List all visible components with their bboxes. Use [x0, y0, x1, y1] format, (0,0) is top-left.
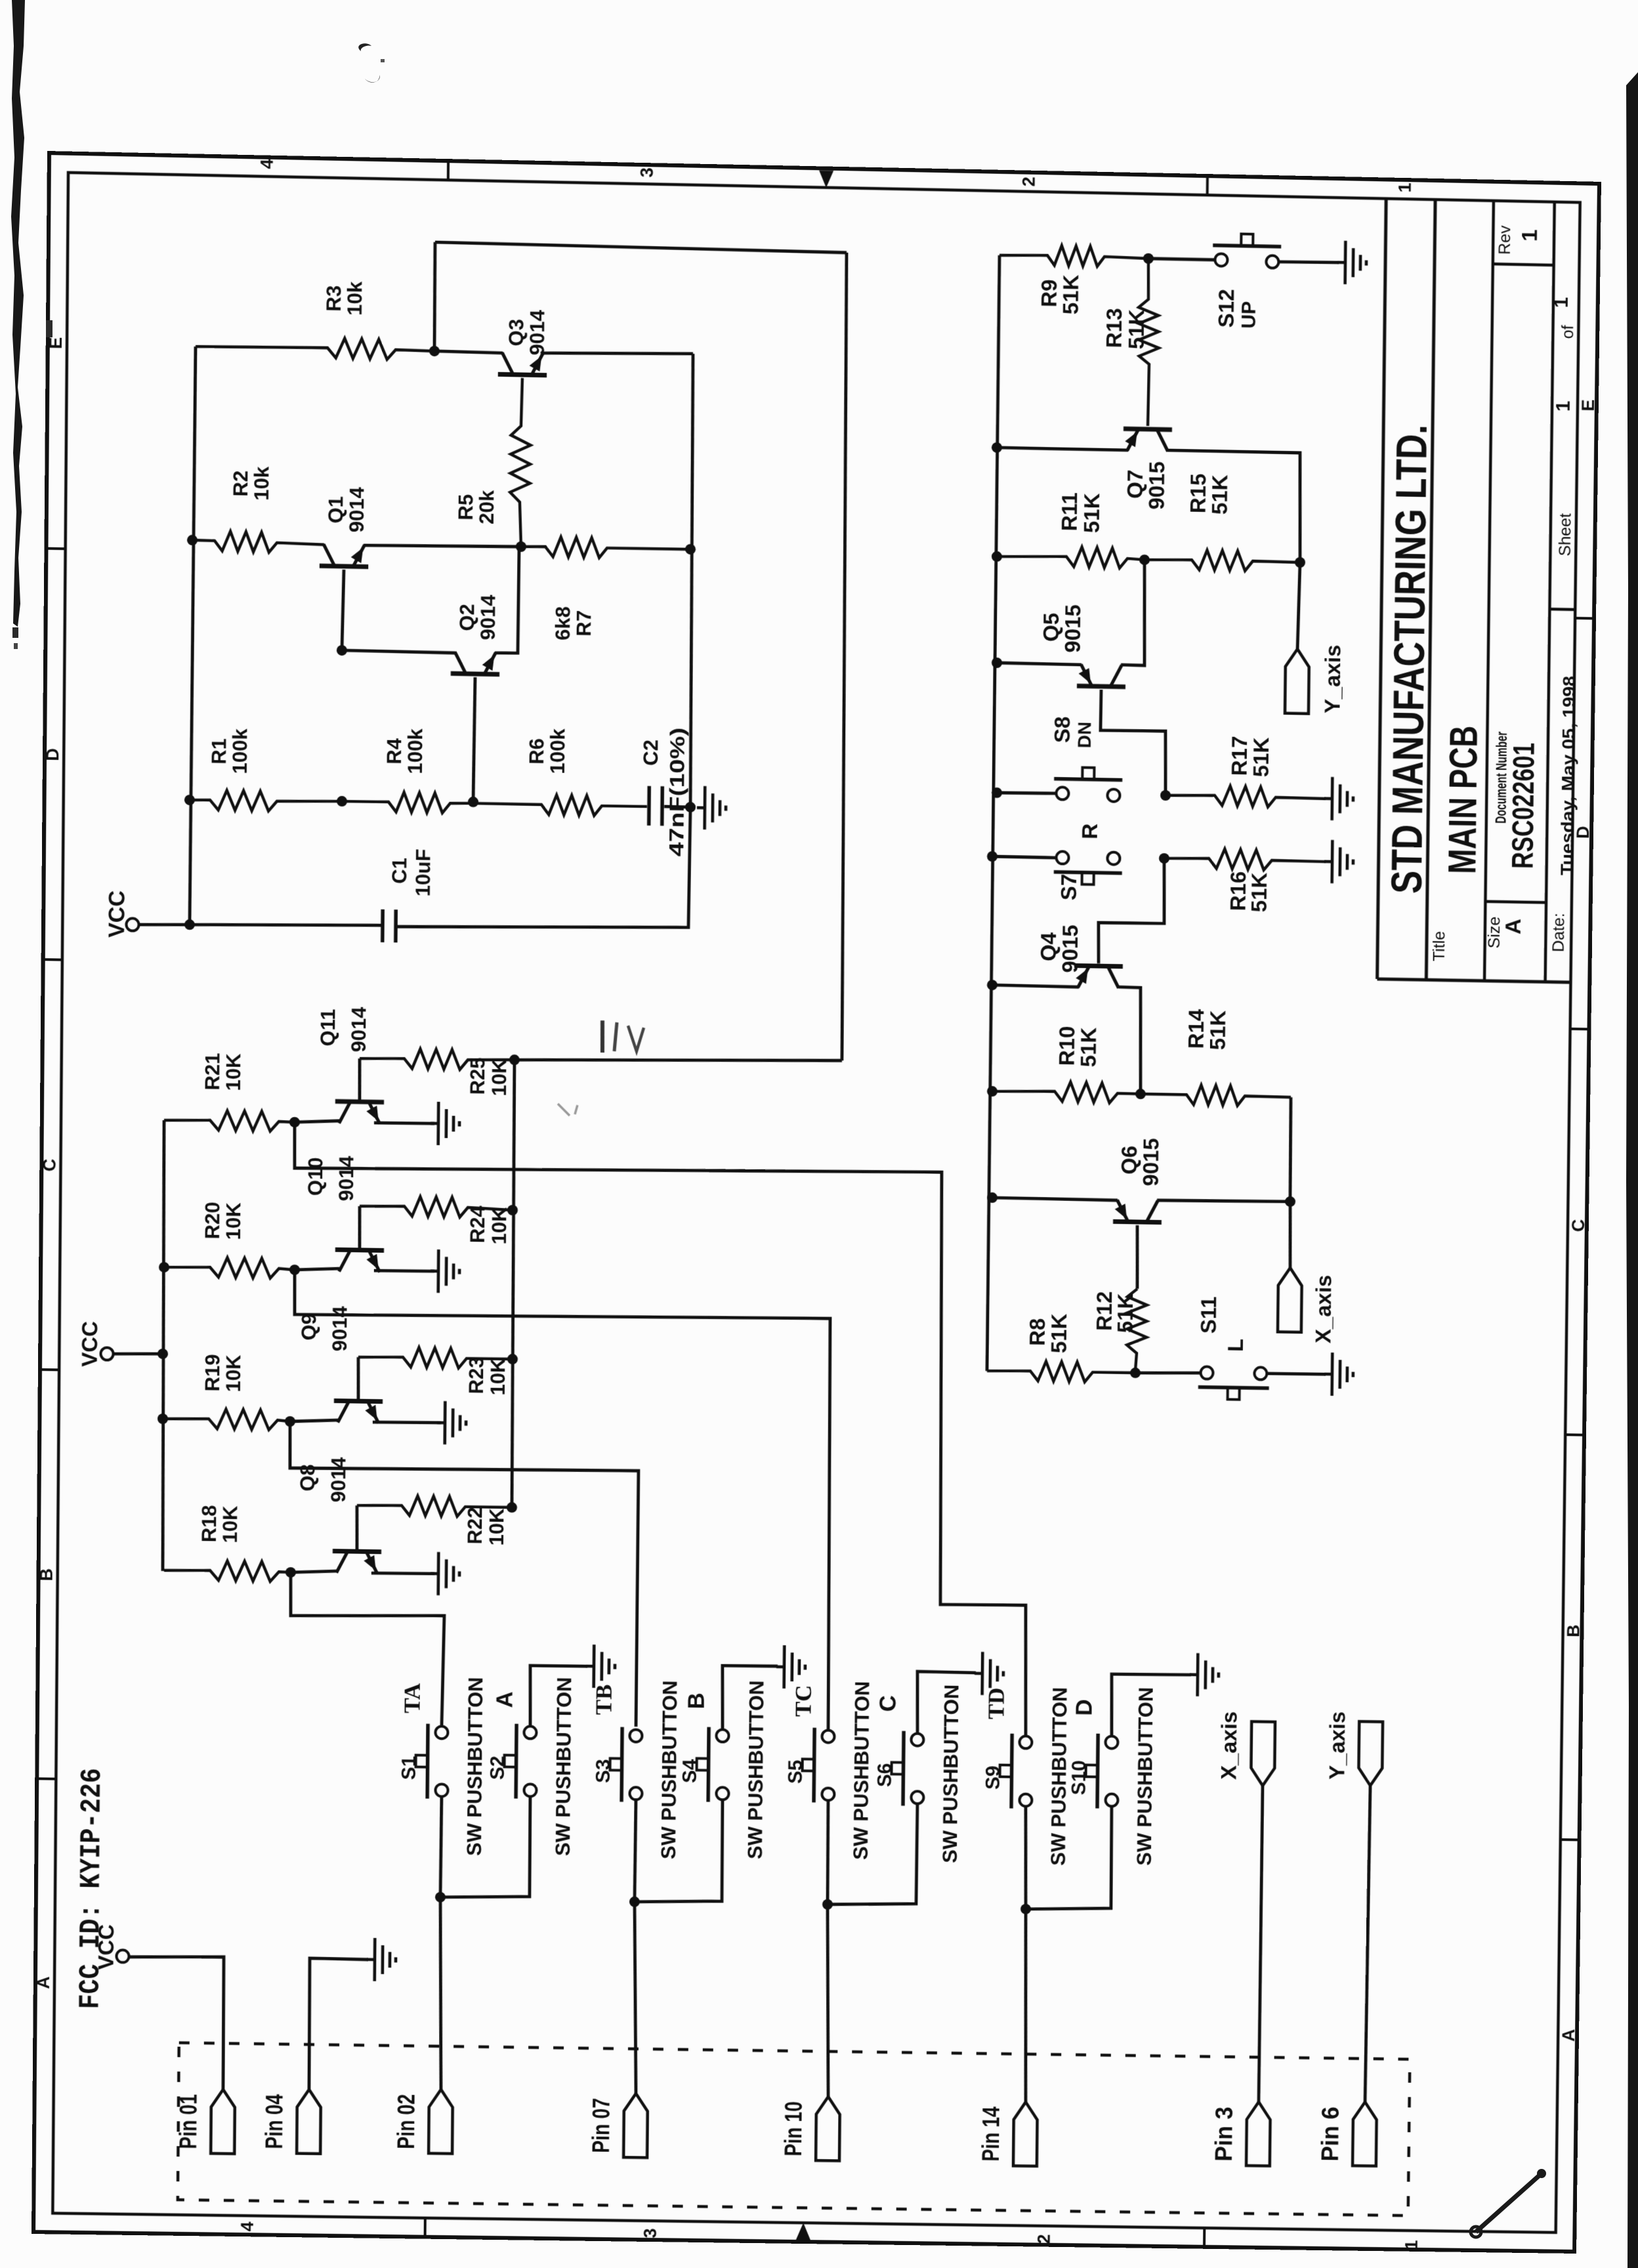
svg-text:1: 1 — [1395, 182, 1415, 193]
wire to Pin 14 — [1024, 1909, 1028, 2102]
svg-text:3: 3 — [640, 2228, 660, 2238]
svg-text:S5: S5 — [785, 1759, 807, 1784]
pencil mark 2 — [558, 1104, 570, 1116]
capacitor C1 — [381, 910, 385, 942]
svg-text:STD MANUFACTURING LTD.: STD MANUFACTURING LTD. — [1383, 424, 1436, 894]
svg-text:S10: S10 — [1068, 1760, 1090, 1795]
wire VCC row — [190, 922, 383, 928]
wire Q9 emitter — [373, 1421, 441, 1423]
svg-text:51K: 51K — [1248, 872, 1272, 912]
node R2/rail — [187, 535, 198, 545]
svg-text:1: 1 — [1401, 2240, 1421, 2250]
wire Q5 base — [1100, 690, 1167, 795]
svg-text:R13: R13 — [1102, 308, 1127, 348]
wire S6 bottom — [828, 1802, 917, 1906]
svg-text:SW PUSHBUTTON: SW PUSHBUTTON — [938, 1684, 963, 1863]
svg-text:10K: 10K — [488, 1059, 511, 1097]
wire VCC rail left — [190, 346, 196, 925]
ground Q9 emitter — [437, 1421, 445, 1425]
wire Q10 emitter — [374, 1270, 434, 1272]
resistor R23 — [358, 1347, 513, 1369]
ground net C — [975, 1672, 982, 1675]
node R7/right rail — [685, 544, 696, 555]
wire S6 to ground — [917, 1671, 976, 1734]
svg-text:1: 1 — [1553, 400, 1574, 411]
node Q2 base/R4 R6 — [468, 797, 478, 807]
svg-text:R14: R14 — [1185, 1009, 1209, 1049]
resistor R8 — [987, 1360, 1135, 1383]
switch S1 — [435, 1726, 448, 1738]
switch S3 — [629, 1729, 642, 1742]
zone tick left — [38, 1368, 59, 1372]
wire Q7 collector — [1166, 450, 1301, 561]
transistor Q1 — [320, 566, 368, 566]
switch S11 — [1200, 1366, 1213, 1379]
wire Q3 emitter — [542, 351, 693, 356]
wire S3 bottom — [635, 1799, 636, 1902]
svg-text:100k: 100k — [228, 728, 251, 774]
resistor R19 — [163, 1408, 290, 1430]
node S1/S2 — [435, 1892, 446, 1902]
node C2/ground — [685, 802, 696, 812]
node S9/S10 — [1020, 1904, 1031, 1914]
svg-text:Rev: Rev — [1496, 225, 1514, 255]
svg-text:A: A — [1501, 919, 1526, 934]
svg-text:S12: S12 — [1215, 289, 1239, 328]
node rail/R10 — [987, 1086, 997, 1097]
wire S12 right — [1278, 261, 1339, 263]
svg-text:R10: R10 — [1055, 1026, 1080, 1066]
wire S2 bottom — [440, 1795, 530, 1899]
connector X_axis bottom — [1251, 1721, 1275, 1786]
zone tick top 4/3 — [447, 159, 450, 180]
svg-text:R9: R9 — [1038, 279, 1062, 307]
svg-text:100k: 100k — [546, 728, 569, 774]
svg-text:3: 3 — [637, 167, 657, 178]
svg-text:9014: 9014 — [327, 1457, 350, 1503]
transistor Q7 — [1123, 429, 1172, 429]
wire S12 left — [1148, 259, 1215, 260]
svg-text:SW PUSHBUTTON: SW PUSHBUTTON — [1133, 1687, 1157, 1866]
svg-text:FCC ID: KYIP-226: FCC ID: KYIP-226 — [75, 1768, 110, 2009]
wire Q8 emitter — [371, 1573, 434, 1574]
smudge top-left — [341, 39, 400, 92]
svg-text:10K: 10K — [222, 1053, 245, 1091]
wire Q4 collector — [1117, 987, 1141, 1094]
wire Q10 collector — [359, 1206, 360, 1250]
svg-text:9014: 9014 — [328, 1305, 351, 1351]
resistor R16 — [1164, 848, 1326, 871]
svg-text:Sheet: Sheet — [1556, 513, 1574, 556]
node S3/S4 — [629, 1897, 640, 1907]
svg-text:Pin 6: Pin 6 — [1316, 2107, 1343, 2162]
svg-text:51K: 51K — [1208, 474, 1232, 514]
resistor R21 — [164, 1110, 295, 1131]
node rail/Q5 — [992, 658, 1002, 668]
connector Pin 01 — [211, 2089, 235, 2154]
svg-text:R17: R17 — [1228, 736, 1252, 776]
ground Pin 04 — [367, 1958, 375, 1962]
wire S4 bottom — [635, 1798, 723, 1903]
svg-text:S2: S2 — [487, 1755, 509, 1780]
ground net A — [586, 1665, 594, 1668]
wire S2 to ground — [530, 1666, 587, 1727]
wire Q5 emitter — [997, 663, 1081, 665]
node Q8 base — [285, 1567, 296, 1578]
svg-text:R23: R23 — [465, 1356, 488, 1394]
svg-text:R3: R3 — [322, 285, 345, 312]
svg-text:C1: C1 — [388, 858, 411, 884]
resistor R2 — [192, 531, 324, 554]
svg-text:D: D — [42, 748, 62, 761]
wire to X_axis — [1290, 1202, 1291, 1268]
node S5/S6 — [822, 1899, 833, 1910]
wire Q6 base — [1137, 1225, 1138, 1289]
svg-text:X_axis: X_axis — [1217, 1711, 1242, 1780]
wire S10 to ground — [1111, 1673, 1191, 1737]
wire Q4 emitter — [992, 985, 1079, 987]
svg-text:Q3: Q3 — [505, 319, 528, 346]
resistor R22 — [357, 1495, 512, 1517]
node Q11 base — [289, 1117, 300, 1127]
ground Q10 emitter — [430, 1270, 438, 1273]
ground R16 — [1324, 860, 1332, 863]
wire feedback top — [435, 242, 847, 253]
wire to Pin 10 — [826, 1904, 830, 2097]
resistor R11 — [997, 545, 1144, 568]
svg-text:R2: R2 — [229, 471, 252, 497]
svg-text:51K: 51K — [1114, 1293, 1138, 1333]
svg-text:B: B — [36, 1568, 56, 1582]
svg-text:2: 2 — [1034, 2234, 1054, 2244]
svg-text:20k: 20k — [475, 490, 498, 524]
connector Pin 10 — [816, 2097, 840, 2161]
node VCC/rail — [184, 919, 195, 930]
resistor R4 — [342, 791, 473, 814]
svg-text:4: 4 — [237, 2221, 257, 2231]
connector Pin 07 — [623, 2093, 648, 2158]
node R3/Q3 — [429, 346, 440, 356]
svg-text:9014: 9014 — [476, 594, 499, 640]
resistor R6 — [473, 793, 647, 816]
svg-text:A: A — [1558, 2029, 1578, 2042]
switch S12 — [1215, 253, 1227, 266]
switch S9 — [1019, 1736, 1032, 1748]
zone tick right — [1565, 1433, 1586, 1436]
svg-text:A: A — [492, 1691, 518, 1708]
svg-text:TC: TC — [791, 1685, 816, 1717]
svg-text:51K: 51K — [1077, 1027, 1101, 1067]
svg-text:R6: R6 — [525, 738, 548, 765]
svg-text:Q7: Q7 — [1123, 469, 1148, 499]
wire Q6 collector — [1157, 1200, 1290, 1203]
svg-text:R1: R1 — [207, 738, 230, 765]
resistor R9 — [999, 245, 1148, 268]
svg-text:Pin 04: Pin 04 — [260, 2094, 287, 2149]
svg-text:A: A — [33, 1976, 53, 1989]
node R22 jct — [507, 1502, 517, 1513]
VCC symbol circle mid — [100, 1347, 113, 1360]
svg-text:Tuesday, May 05, 1998: Tuesday, May 05, 1998 — [1557, 676, 1579, 876]
svg-text:C2: C2 — [639, 740, 662, 766]
resistor R18 — [164, 1560, 291, 1582]
svg-text:10k: 10k — [343, 281, 366, 316]
transistor Q4 — [1074, 965, 1123, 966]
svg-text:S6: S6 — [874, 1763, 896, 1787]
node R5/R7 — [516, 541, 526, 552]
wire S4 to ground — [722, 1666, 778, 1731]
svg-text:51K: 51K — [1080, 493, 1104, 533]
transistor Q8 — [333, 1551, 381, 1551]
svg-text:1: 1 — [1518, 229, 1542, 241]
node S8/Q5 — [1160, 790, 1171, 801]
zone tick top 2/1 — [1206, 174, 1209, 195]
node R9/R13 — [1143, 253, 1154, 264]
wire VCC to Pin 01 — [127, 1956, 224, 2089]
svg-text:Pin 3: Pin 3 — [1209, 2107, 1237, 2162]
svg-text:51K: 51K — [1059, 274, 1083, 315]
svg-text:Pin 14: Pin 14 — [976, 2107, 1004, 2162]
wire Y_axis to Pin 6 — [1365, 1786, 1370, 2102]
svg-text:SW PUSHBUTTON: SW PUSHBUTTON — [551, 1677, 576, 1856]
node Q6/X_axis — [1285, 1196, 1295, 1207]
svg-text:MAIN PCB: MAIN PCB — [1440, 725, 1486, 874]
wire Q2 base — [473, 677, 475, 802]
border center marker top — [819, 171, 833, 188]
transistor Q3 — [498, 374, 547, 375]
svg-text:Q5: Q5 — [1039, 612, 1064, 642]
ground Q11 emitter — [430, 1122, 438, 1125]
svg-text:9015: 9015 — [1059, 925, 1083, 973]
ground net D — [1190, 1673, 1198, 1676]
svg-text:B: B — [684, 1692, 709, 1710]
wire S5 bottom — [827, 1800, 828, 1904]
svg-text:10K: 10K — [219, 1505, 241, 1543]
wire TD net — [289, 1122, 1032, 1736]
svg-text:C: C — [39, 1158, 59, 1171]
zone tick bottom 4/3 — [424, 2218, 427, 2239]
resistor R15 — [1144, 549, 1300, 572]
svg-text:L: L — [1224, 1339, 1248, 1353]
wire feedback down — [839, 253, 850, 1060]
svg-text:6k8: 6k8 — [551, 606, 574, 641]
transistor Q2 — [451, 673, 499, 674]
ground R17 — [1324, 797, 1332, 800]
wire to Y_axis — [1297, 562, 1300, 649]
zone tick right — [1575, 617, 1596, 620]
svg-text:9014: 9014 — [335, 1155, 358, 1201]
VCC symbol circle top — [126, 918, 138, 931]
connector Y_axis bottom — [1358, 1721, 1383, 1786]
wire S8 left — [997, 792, 1057, 793]
wire C2 to node — [664, 807, 690, 807]
transistor Q6 — [1113, 1221, 1162, 1222]
svg-text:RSC022601: RSC022601 — [1505, 742, 1541, 869]
wire Q6 emitter — [992, 1198, 1118, 1200]
svg-text:R4: R4 — [383, 738, 406, 765]
svg-text:C: C — [875, 1695, 901, 1712]
pencil mark — [600, 1020, 605, 1053]
svg-text:SW PUSHBUTTON: SW PUSHBUTTON — [849, 1681, 873, 1860]
wire feedback up — [434, 242, 436, 351]
wire Q11 emitter — [374, 1122, 434, 1123]
resistor R3 — [196, 335, 434, 360]
svg-text:2: 2 — [1018, 177, 1039, 187]
resistor R13 — [1137, 259, 1160, 427]
svg-text:R5: R5 — [454, 494, 477, 520]
wire Pin 04 to ground — [308, 1958, 368, 2090]
svg-text:Title: Title — [1430, 931, 1448, 961]
wire Q4 base — [1098, 857, 1165, 964]
svg-text:S4: S4 — [679, 1759, 701, 1783]
svg-text:SW PUSHBUTTON: SW PUSHBUTTON — [1047, 1687, 1071, 1866]
node Q1 base/R1 R4 — [337, 796, 347, 807]
svg-text:R8: R8 — [1026, 1318, 1050, 1346]
svg-text:Q6: Q6 — [1118, 1145, 1142, 1175]
svg-text:10K: 10K — [486, 1358, 509, 1396]
svg-text:1: 1 — [1551, 297, 1572, 308]
connector Pin 3 — [1246, 2102, 1270, 2166]
resistor R17 — [1165, 785, 1326, 808]
node rail/R19 — [157, 1414, 168, 1424]
svg-text:R21: R21 — [201, 1053, 224, 1091]
wire S9 bottom — [1024, 1806, 1026, 1909]
svg-text:Y_axis: Y_axis — [1326, 1711, 1351, 1780]
svg-text:S1: S1 — [398, 1755, 420, 1780]
svg-text:S7: S7 — [1057, 873, 1081, 900]
switch S4 — [716, 1729, 728, 1742]
wire Q3 collector — [434, 351, 503, 353]
resistor R10 — [992, 1081, 1141, 1104]
node R1/rail — [184, 795, 195, 805]
zone tick left — [44, 547, 65, 551]
svg-text:9015: 9015 — [1139, 1138, 1164, 1186]
scanner streak left edge — [0, 0, 52, 656]
wire R14 down — [1290, 1097, 1291, 1200]
switch S8 — [1056, 787, 1068, 799]
wire VCC stub 2 — [113, 1353, 163, 1354]
svg-text:UP: UP — [1238, 301, 1260, 329]
switch S7 — [1056, 851, 1068, 864]
svg-text:X_axis: X_axis — [1312, 1274, 1337, 1343]
wire S1 bottom — [440, 1796, 442, 1897]
zone tick bottom 2/1 — [1203, 2228, 1206, 2249]
resistor R25 — [360, 1048, 514, 1070]
svg-text:TA: TA — [400, 1683, 425, 1713]
svg-text:10K: 10K — [485, 1508, 508, 1546]
svg-text:10K: 10K — [222, 1354, 245, 1393]
resistor R7 — [521, 536, 690, 559]
svg-text:R24: R24 — [466, 1205, 489, 1243]
switch S6 — [911, 1733, 923, 1746]
node R10/R14 — [1135, 1089, 1146, 1099]
svg-text:Q9: Q9 — [297, 1313, 320, 1341]
svg-text:10K: 10K — [222, 1202, 245, 1240]
svg-text:B: B — [1563, 1624, 1584, 1637]
switch S10 — [1105, 1736, 1118, 1748]
svg-text:R25: R25 — [466, 1057, 489, 1095]
transistor Q10 — [335, 1249, 384, 1250]
svg-text:R22: R22 — [463, 1507, 486, 1544]
node Q1 base/Q2 collector — [337, 645, 347, 656]
svg-text:Q2: Q2 — [455, 604, 478, 631]
connector Pin 14 — [1013, 2102, 1038, 2166]
svg-text:Q1: Q1 — [324, 496, 347, 524]
svg-text:10K: 10K — [488, 1207, 511, 1245]
svg-text:TD: TD — [984, 1687, 1009, 1719]
svg-text:51K: 51K — [1047, 1313, 1072, 1353]
wire to Pin 02 — [438, 1897, 442, 2089]
svg-text:9014: 9014 — [347, 1006, 370, 1052]
svg-text:S3: S3 — [593, 1759, 614, 1783]
node Q9 base — [285, 1416, 295, 1427]
node rail/Q7 — [992, 442, 1002, 453]
wire Q9 collector — [358, 1357, 358, 1401]
border center marker bottom — [796, 2223, 810, 2240]
svg-text:VCC: VCC — [104, 890, 129, 938]
transistor Q11 — [335, 1101, 384, 1102]
wire S7 left — [992, 856, 1057, 858]
ground S11 — [1324, 1373, 1332, 1376]
node R8/R12 — [1130, 1368, 1141, 1378]
scanner black bar right edge — [1621, 0, 1638, 2268]
title block bottom edge — [1377, 979, 1571, 982]
transistor Q9 — [334, 1400, 383, 1401]
wire VCC rail 2 — [161, 1120, 167, 1571]
resistor R5 — [509, 378, 531, 547]
svg-text:Pin 07: Pin 07 — [587, 2098, 614, 2153]
svg-text:Size: Size — [1485, 916, 1503, 948]
svg-text:SW PUSHBUTTON: SW PUSHBUTTON — [463, 1677, 487, 1856]
wire Q5 collector — [1121, 559, 1146, 665]
resistor R14 — [1141, 1084, 1291, 1106]
resistor R1 — [190, 789, 342, 812]
wire Q8 base — [291, 1570, 337, 1573]
node S7/Q4 — [1159, 853, 1169, 864]
svg-text:47nF(10%): 47nF(10%) — [665, 727, 689, 856]
svg-text:C: C — [1568, 1219, 1588, 1232]
title block size box divider — [1485, 902, 1546, 903]
svg-text:D: D — [1072, 1699, 1097, 1716]
svg-text:R19: R19 — [201, 1354, 224, 1391]
wire Q11 collector — [359, 1059, 360, 1102]
wire VCC stub — [138, 924, 190, 926]
svg-text:Q11: Q11 — [316, 1009, 339, 1047]
svg-text:51K: 51K — [1125, 309, 1149, 349]
wire Q1 emitter — [364, 544, 521, 549]
svg-text:100k: 100k — [404, 728, 427, 774]
ground osc — [697, 806, 705, 809]
wire right rail kbd — [511, 1060, 516, 1507]
svg-text:9015: 9015 — [1061, 604, 1085, 653]
wire Q11 base — [295, 1120, 339, 1123]
svg-text:Q4: Q4 — [1037, 932, 1061, 961]
svg-text:TB: TB — [591, 1684, 617, 1715]
capacitor C2 — [647, 786, 651, 826]
svg-text:51K: 51K — [1206, 1010, 1230, 1050]
svg-text:R18: R18 — [198, 1505, 220, 1542]
node rail/Q4 — [987, 980, 997, 990]
title block left edge — [1377, 199, 1387, 979]
ground Q8 emitter — [430, 1572, 438, 1575]
svg-text:VCC: VCC — [78, 1321, 102, 1367]
wire S11 left — [1135, 1372, 1201, 1374]
node rail/S8 — [992, 787, 1002, 798]
zone tick right — [1561, 1838, 1582, 1841]
svg-text:R15: R15 — [1186, 473, 1211, 513]
wire Q2 collector — [342, 650, 455, 653]
ground S12 — [1337, 261, 1345, 264]
